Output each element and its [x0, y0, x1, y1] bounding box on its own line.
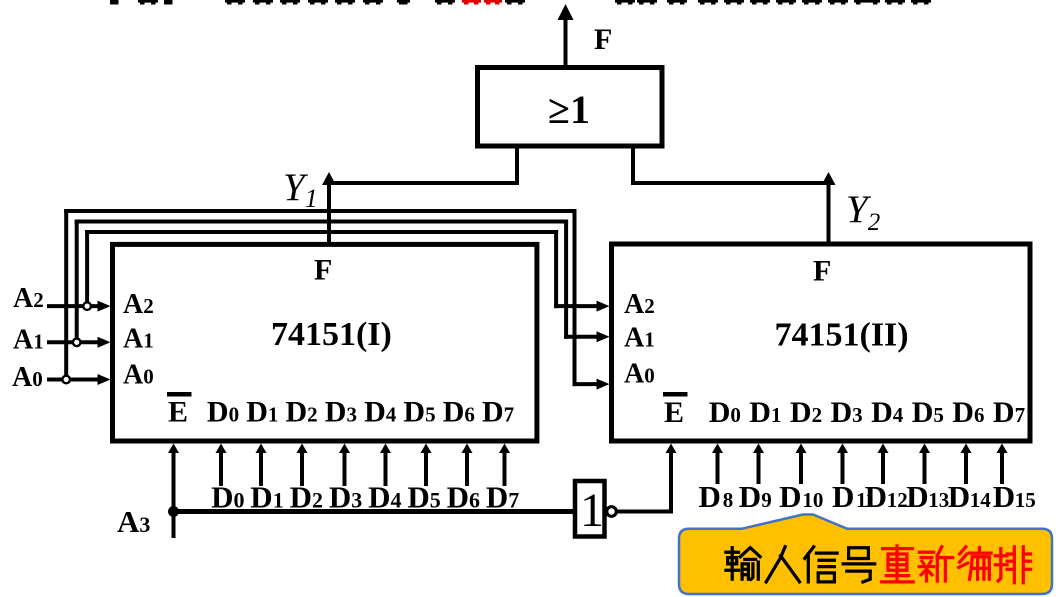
svg-text:A1: A1 — [624, 323, 655, 354]
svg-text:Y2: Y2 — [846, 188, 880, 236]
svg-text:D5: D5 — [403, 396, 435, 429]
svg-text:D9: D9 — [739, 479, 772, 514]
svg-text:D3: D3 — [329, 480, 362, 515]
svg-text:A1: A1 — [123, 324, 154, 355]
svg-text:A2: A2 — [624, 289, 655, 320]
svg-text:D7: D7 — [482, 396, 514, 429]
svg-text:E: E — [168, 396, 188, 429]
svg-text:D1: D1 — [749, 396, 781, 429]
svg-text:Y1: Y1 — [283, 166, 318, 213]
svg-text:D0: D0 — [211, 480, 244, 515]
svg-text:E: E — [664, 396, 684, 429]
svg-text:A0: A0 — [12, 362, 43, 393]
svg-text:F: F — [813, 255, 831, 288]
svg-text:A1: A1 — [13, 325, 44, 356]
svg-text:D2: D2 — [286, 396, 318, 429]
svg-text:74151(II): 74151(II) — [775, 317, 909, 354]
svg-text:F: F — [314, 254, 332, 287]
svg-text:D5: D5 — [912, 396, 944, 429]
svg-text:74151(I): 74151(I) — [271, 316, 392, 353]
svg-text:D4: D4 — [368, 480, 401, 515]
svg-text:A2: A2 — [123, 289, 154, 320]
svg-text:D14: D14 — [948, 479, 992, 514]
svg-text:D2: D2 — [790, 396, 822, 429]
svg-text:D3: D3 — [831, 396, 863, 429]
svg-text:D0: D0 — [709, 396, 741, 429]
svg-text:D10: D10 — [779, 479, 823, 514]
svg-text:D6: D6 — [952, 396, 984, 429]
svg-text:D7: D7 — [486, 480, 519, 515]
svg-text:D4: D4 — [364, 396, 397, 429]
svg-text:D1: D1 — [250, 480, 283, 515]
svg-text:F: F — [594, 23, 612, 56]
svg-text:1: 1 — [580, 484, 604, 537]
svg-text:D6: D6 — [447, 480, 480, 515]
svg-text:D15: D15 — [993, 479, 1036, 514]
svg-text:D3: D3 — [325, 396, 357, 429]
svg-text:D12: D12 — [865, 479, 908, 514]
svg-text:A0: A0 — [624, 359, 655, 390]
svg-text:A2: A2 — [13, 283, 44, 314]
svg-text:D5: D5 — [407, 480, 440, 515]
svg-text:D1: D1 — [246, 396, 278, 429]
svg-text:A0: A0 — [123, 360, 154, 391]
svg-text:A3: A3 — [117, 504, 150, 539]
svg-text:D2: D2 — [290, 480, 323, 515]
svg-text:D6: D6 — [443, 396, 475, 429]
svg-text:D13: D13 — [906, 479, 949, 514]
svg-text:D7: D7 — [993, 396, 1025, 429]
svg-text:D4: D4 — [871, 396, 904, 429]
svg-text:D8: D8 — [699, 479, 734, 514]
svg-text:≥1: ≥1 — [548, 87, 590, 132]
svg-text:D0: D0 — [207, 396, 239, 429]
